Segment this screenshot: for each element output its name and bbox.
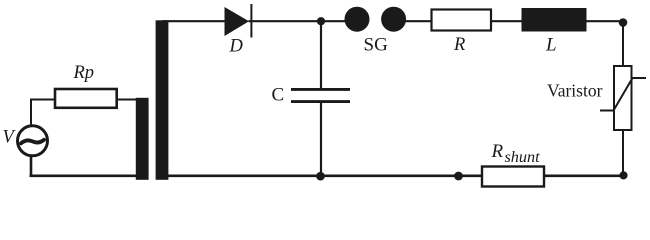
node junction top of capacitor [317,17,325,25]
node capacitor bottom junction [316,172,325,181]
resistor R_shunt [482,141,544,187]
svg-text:C: C [272,85,285,106]
wire source top to Rp [30,100,56,127]
spark gap SG [345,7,407,56]
transformer primary bar [136,98,149,180]
svg-text:shunt: shunt [505,148,541,166]
wire secondary top to diode [162,20,226,22]
wire capacitor bottom to rail [320,102,322,176]
wire Rp to transformer primary [116,99,138,101]
svg-text:R: R [453,35,465,55]
wire R to L [491,20,523,22]
wire junction down to capacitor [320,21,322,89]
node tap before R_shunt [454,172,463,181]
resistor R [432,10,492,56]
svg-text:L: L [545,35,557,56]
node top-right corner [619,18,628,27]
diode D [225,4,252,57]
capacitor C [272,85,351,106]
inductor L [522,8,587,56]
wire down to varistor [622,22,624,66]
wire diode to junction and spark gap [249,20,347,22]
svg-text:D: D [229,37,244,57]
wire spark gap to R [404,20,432,22]
transformer secondary bar [156,20,169,180]
svg-text:SG: SG [364,35,389,56]
wire L to top-right corner [586,20,623,22]
resistor Rp [55,63,117,108]
wire source bottom to transformer primary [30,156,139,176]
bottom rail wire [166,175,624,178]
svg-text:Varistor: Varistor [547,81,603,101]
varistor [547,66,646,130]
wire varistor bottom to rail [622,130,624,176]
AC source V [3,126,48,156]
svg-text:Rp: Rp [73,63,95,83]
svg-text:R: R [491,141,504,162]
node bottom-right corner [619,171,627,179]
